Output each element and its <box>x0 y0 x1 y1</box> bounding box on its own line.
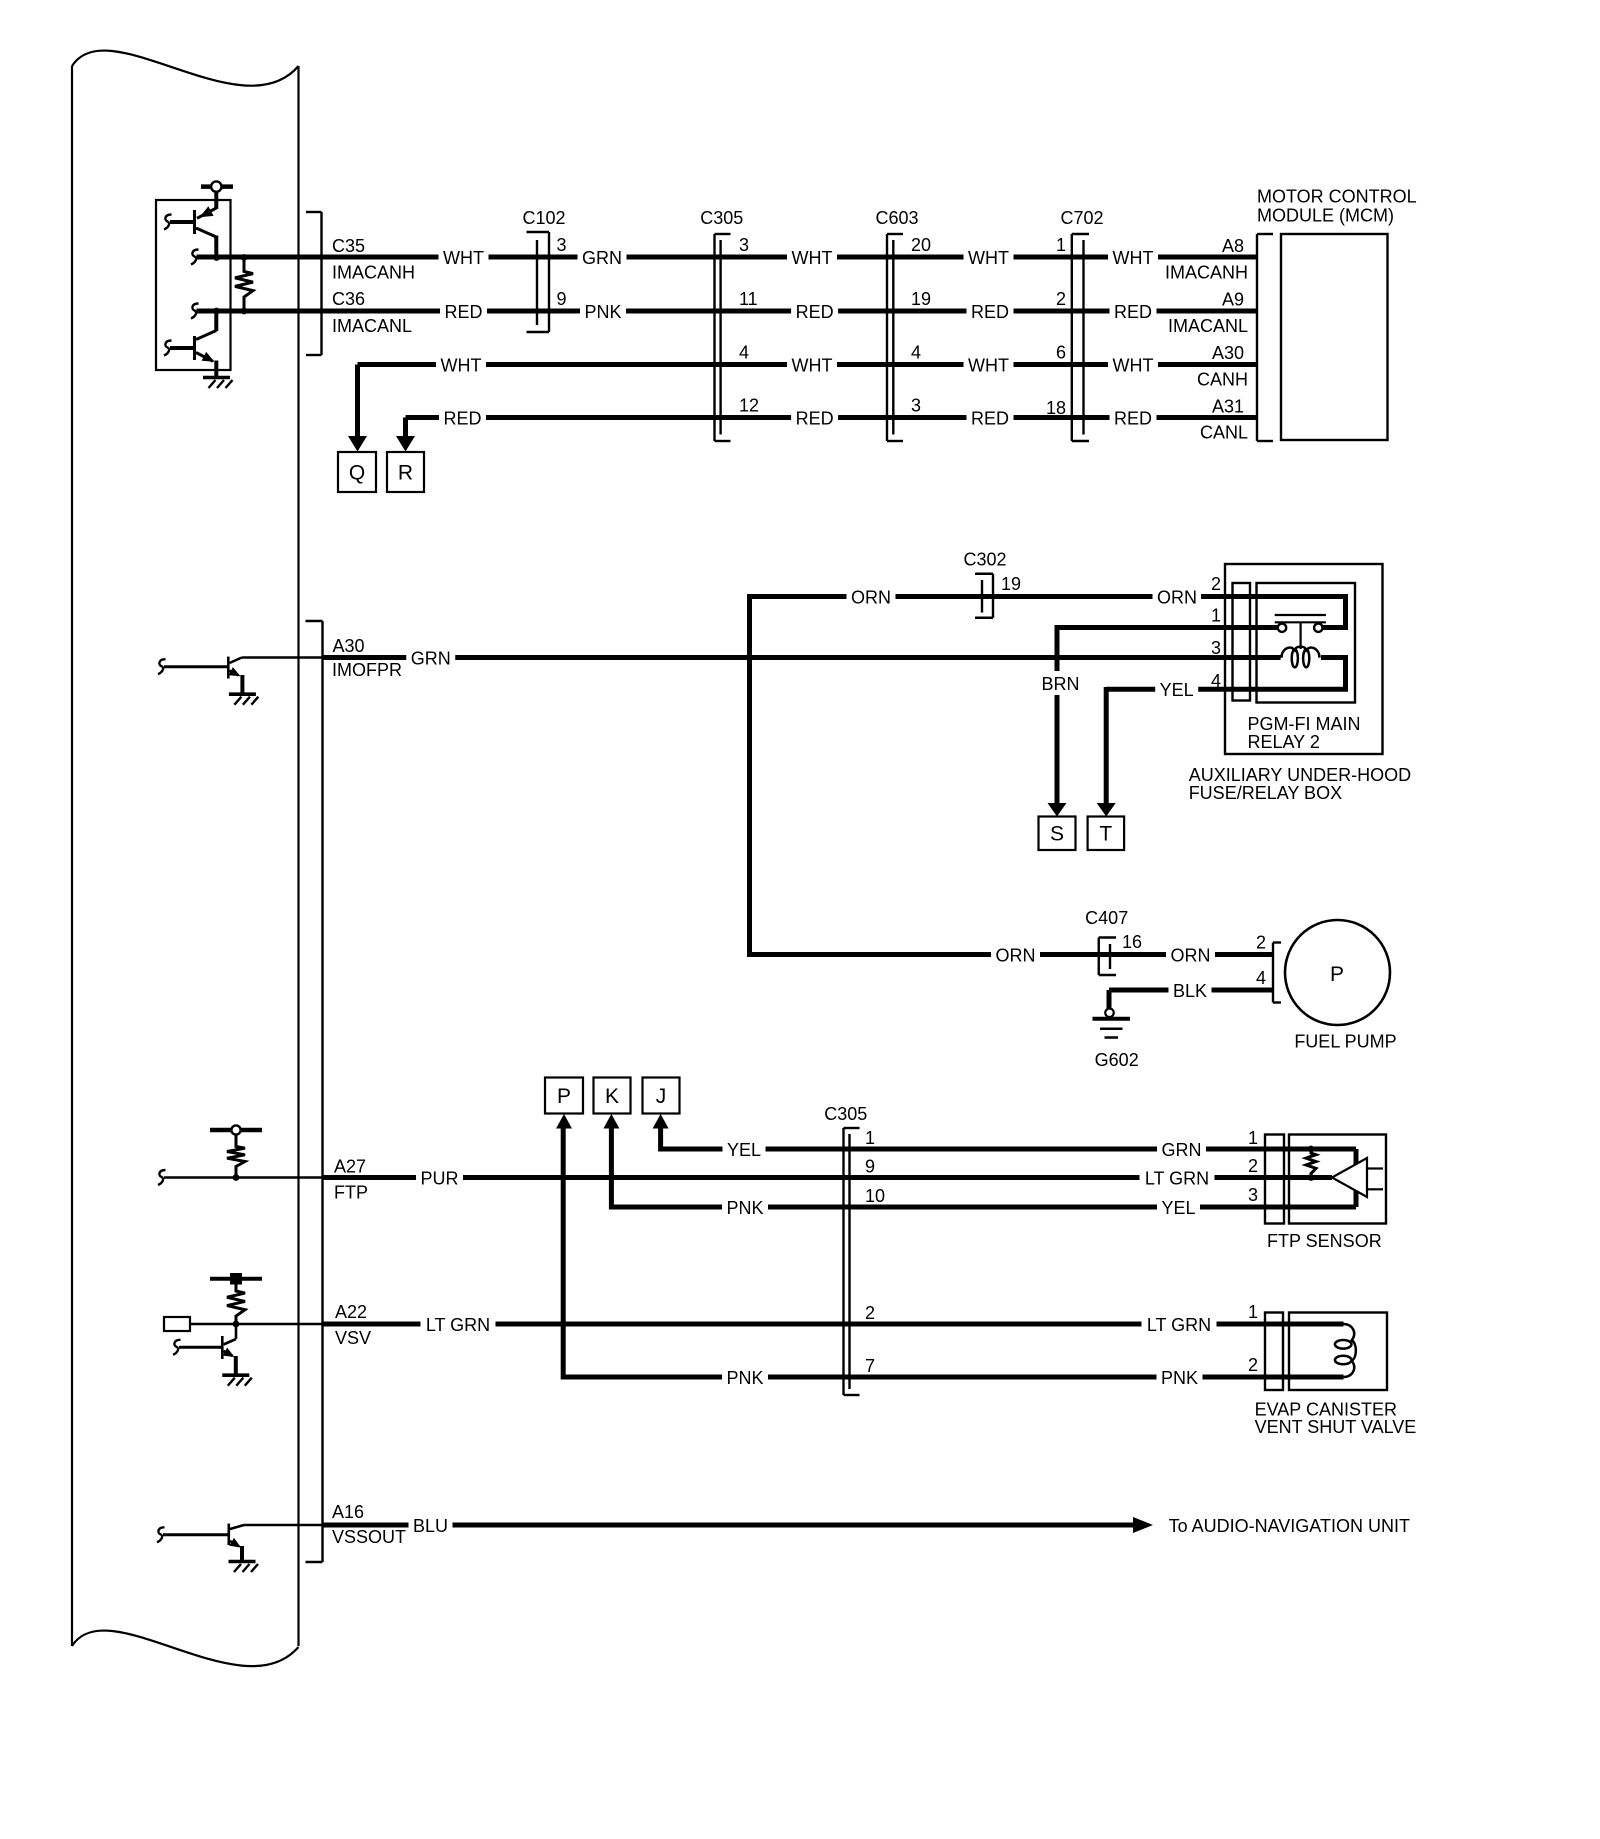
svg-text:RED: RED <box>796 302 834 322</box>
svg-text:To AUDIO-NAVIGATION UNIT: To AUDIO-NAVIGATION UNIT <box>1169 1516 1410 1536</box>
relay coil <box>1282 647 1320 668</box>
wire ORN to fuel pump pin 2 <box>750 933 1274 966</box>
svg-text:PNK: PNK <box>584 302 621 322</box>
svg-text:C35: C35 <box>332 236 365 256</box>
svg-text:RED: RED <box>971 408 1009 428</box>
wire CANH row: WHT to MCM A30 (branch to Q) <box>358 343 1258 436</box>
EVAP valve connector <box>1248 1302 1283 1390</box>
svg-text:2: 2 <box>1248 1156 1258 1176</box>
svg-text:WHT: WHT <box>968 355 1009 375</box>
svg-text:3: 3 <box>557 235 567 255</box>
svg-text:RED: RED <box>796 408 834 428</box>
svg-text:C36: C36 <box>332 289 365 309</box>
svg-text:CANH: CANH <box>1197 370 1248 390</box>
svg-text:VSV: VSV <box>335 1328 371 1348</box>
terminal rectangle on VSV line <box>164 1317 323 1331</box>
wire CANL row: RED to MCM A31 (branch to R) <box>406 397 1258 443</box>
svg-text:C305: C305 <box>700 208 743 228</box>
relay connector (pins 2/1/3/4) <box>1211 574 1250 701</box>
svg-text:FTP SENSOR: FTP SENSOR <box>1267 1231 1382 1251</box>
destination box S <box>1039 817 1076 851</box>
connector C603 <box>875 208 931 441</box>
svg-text:LT GRN: LT GRN <box>1147 1315 1211 1335</box>
svg-text:G602: G602 <box>1095 1050 1139 1070</box>
svg-text:AUXILIARY UNDER-HOOD: AUXILIARY UNDER-HOOD <box>1189 765 1411 785</box>
source box P with arrow <box>545 1078 583 1129</box>
wire YEL branch with arrow to T <box>1097 687 1116 817</box>
svg-text:WHT: WHT <box>441 355 482 375</box>
svg-text:16: 16 <box>1122 932 1142 952</box>
wire ORN vertical junction branch <box>747 594 752 957</box>
component box containing transistor pair <box>156 200 231 370</box>
wire J vertical branch (YEL feed) <box>658 1129 663 1152</box>
svg-text:RED: RED <box>444 302 482 322</box>
wire relay pin 4 internal path (YEL) <box>1106 658 1345 701</box>
ground G602 (earth) <box>1093 1009 1139 1071</box>
PGM-FI MAIN RELAY 2 (inner box) <box>1248 583 1361 752</box>
svg-text:1: 1 <box>1056 235 1066 255</box>
svg-text:A30: A30 <box>1212 343 1244 363</box>
fuel pump (motor P) <box>1285 920 1397 1052</box>
svg-text:PNK: PNK <box>726 1368 763 1388</box>
relay contact (switch) <box>1275 615 1326 649</box>
svg-text:ORN: ORN <box>1157 587 1197 607</box>
svg-text:C102: C102 <box>522 208 565 228</box>
svg-text:PNK: PNK <box>726 1198 763 1218</box>
svg-text:PUR: PUR <box>420 1168 458 1188</box>
svg-text:IMACANH: IMACANH <box>1165 263 1248 283</box>
svg-text:RED: RED <box>1114 302 1152 322</box>
svg-text:RED: RED <box>1114 408 1152 428</box>
connector bracket (MCM side, pins C35/C36) <box>306 212 322 355</box>
svg-text:11: 11 <box>739 289 758 309</box>
svg-text:RELAY 2: RELAY 2 <box>1248 732 1320 752</box>
ground (chassis) below transistor box <box>203 378 233 389</box>
transistor Q2 (NPN, lower) <box>164 311 216 377</box>
svg-text:PGM-FI MAIN: PGM-FI MAIN <box>1248 714 1361 734</box>
svg-text:YEL: YEL <box>727 1140 761 1160</box>
svg-text:1: 1 <box>1248 1302 1258 1322</box>
transistor Q4 (VSV driver, NPN) <box>173 1324 236 1375</box>
svg-text:3: 3 <box>911 396 921 416</box>
wire BRN branch with arrow to S <box>1041 625 1079 817</box>
connector C305 (lower) <box>824 1104 885 1395</box>
svg-text:C702: C702 <box>1060 208 1103 228</box>
svg-text:RED: RED <box>971 302 1009 322</box>
svg-text:3: 3 <box>1211 638 1221 658</box>
wire P vertical branch (PNK feed) <box>561 1129 566 1380</box>
svg-text:2: 2 <box>1056 289 1066 309</box>
node: junction dots on IMACANH wire <box>213 254 247 261</box>
svg-text:WHT: WHT <box>968 248 1009 268</box>
wire YEL/GRN row to FTP pin 1 <box>661 1140 1356 1165</box>
svg-text:S: S <box>1050 823 1064 846</box>
EVAP solenoid coil <box>1335 1324 1356 1377</box>
svg-text:MOTOR CONTROL: MOTOR CONTROL <box>1257 187 1417 207</box>
svg-text:K: K <box>605 1085 619 1108</box>
svg-text:2: 2 <box>865 1303 875 1323</box>
wire relay pin 2 internal path <box>1201 597 1346 628</box>
svg-text:GRN: GRN <box>411 648 451 668</box>
destination box Q with arrow <box>338 436 376 492</box>
svg-text:GRN: GRN <box>1162 1140 1202 1160</box>
wire PNK row (from P) to EVAP pin 2 <box>563 1368 1343 1388</box>
svg-text:1: 1 <box>1248 1128 1258 1148</box>
source box J with arrow <box>643 1078 680 1129</box>
wire K vertical branch (PNK feed) <box>609 1129 614 1210</box>
ground (chassis) for Q5 <box>229 1562 259 1573</box>
svg-text:FTP: FTP <box>334 1183 368 1203</box>
connector bracket at Motor Control Module <box>1257 234 1273 441</box>
svg-text:YEL: YEL <box>1160 680 1194 700</box>
svg-text:FUSE/RELAY BOX: FUSE/RELAY BOX <box>1189 783 1342 803</box>
svg-text:A31: A31 <box>1212 397 1244 417</box>
svg-text:A30: A30 <box>333 636 365 656</box>
wire A27 FTP PUR / LT GRN row to FTP pin 2 <box>323 1157 1333 1203</box>
wire FTP internal lead with junction <box>158 1170 323 1185</box>
source box K with arrow <box>594 1078 631 1129</box>
svg-text:RED: RED <box>443 408 481 428</box>
svg-text:A16: A16 <box>332 1502 364 1522</box>
wire IMACANH row: C35 WHT/GRN/WHT/WHT/WHT to MCM A8 <box>191 236 1257 283</box>
svg-text:3: 3 <box>739 235 749 255</box>
auxiliary under-hood fuse/relay box (outer) <box>1189 564 1411 803</box>
svg-text:C603: C603 <box>875 208 918 228</box>
svg-text:FUEL PUMP: FUEL PUMP <box>1294 1032 1396 1052</box>
connector C305 (upper) <box>700 208 759 441</box>
svg-text:CANL: CANL <box>1200 423 1248 443</box>
FTP sensor connector <box>1248 1128 1284 1224</box>
svg-text:12: 12 <box>739 396 759 416</box>
svg-text:19: 19 <box>911 289 931 309</box>
FTP sensor box <box>1267 1135 1386 1252</box>
svg-text:PNK: PNK <box>1161 1368 1198 1388</box>
ground (chassis) for Q3 <box>229 694 259 705</box>
svg-text:IMACANL: IMACANL <box>1168 316 1248 336</box>
wire PNK / YEL row to FTP pin 3 <box>611 1191 1356 1218</box>
wire IMACANL row: C36 RED/PNK/RED/RED/RED to MCM A9 <box>191 289 1257 336</box>
svg-text:ORN: ORN <box>996 945 1036 965</box>
svg-text:4: 4 <box>1256 968 1266 988</box>
svg-text:LT GRN: LT GRN <box>1145 1168 1209 1188</box>
ground (chassis) for Q4 <box>222 1375 252 1386</box>
svg-text:IMOFPR: IMOFPR <box>332 660 402 680</box>
EVAP canister vent shut valve box <box>1255 1313 1417 1438</box>
svg-text:J: J <box>656 1085 667 1108</box>
svg-text:2: 2 <box>1211 574 1221 594</box>
power supply node (circle on bar) <box>201 181 233 209</box>
svg-text:ORN: ORN <box>1171 945 1211 965</box>
svg-text:10: 10 <box>865 1186 885 1206</box>
svg-text:C305: C305 <box>824 1104 867 1124</box>
svg-text:19: 19 <box>1001 574 1021 594</box>
resistor pull-up on FTP line <box>227 1136 245 1178</box>
svg-text:VENT SHUT VALVE: VENT SHUT VALVE <box>1255 1417 1417 1437</box>
svg-text:IMACANH: IMACANH <box>332 263 415 283</box>
svg-text:R: R <box>398 462 413 485</box>
resistor (CAN bus termination) <box>235 258 253 312</box>
svg-text:7: 7 <box>865 1356 875 1376</box>
svg-text:1: 1 <box>1211 606 1221 626</box>
connector C407 <box>1085 908 1142 975</box>
destination box T <box>1088 817 1125 851</box>
svg-text:LT GRN: LT GRN <box>426 1315 490 1335</box>
wire harness band (torn-edge module outline) <box>72 51 299 1667</box>
svg-text:WHT: WHT <box>1113 355 1154 375</box>
svg-text:BLU: BLU <box>413 1516 448 1536</box>
transistor Q3 (IMOFPR driver, NPN) <box>158 657 323 695</box>
svg-text:4: 4 <box>911 343 921 363</box>
wire A30 IMOFPR GRN row to relay pin 3 <box>323 636 1281 680</box>
svg-text:WHT: WHT <box>792 248 833 268</box>
svg-text:1: 1 <box>865 1128 875 1148</box>
FTP wiper triangle <box>1332 1158 1383 1197</box>
svg-text:C302: C302 <box>963 550 1006 570</box>
fuel pump connector bracket <box>1273 943 1281 1003</box>
svg-text:3: 3 <box>1248 1185 1258 1205</box>
svg-text:2: 2 <box>1248 1355 1258 1375</box>
power supply node for A22 (square on bar) <box>210 1273 262 1285</box>
svg-text:MODULE (MCM): MODULE (MCM) <box>1257 206 1394 226</box>
power supply node for A27 (circle on bar) <box>210 1125 262 1134</box>
svg-text:A22: A22 <box>335 1302 367 1322</box>
connector C702 <box>1046 208 1104 441</box>
svg-text:ORN: ORN <box>851 587 891 607</box>
svg-text:BLK: BLK <box>1173 981 1207 1001</box>
svg-text:T: T <box>1099 823 1112 846</box>
transistor Q5 (VSSOUT, NPN) <box>157 1524 323 1562</box>
wire A16 VSSOUT BLU row to audio-navigation <box>323 1502 1410 1547</box>
svg-text:WHT: WHT <box>1113 248 1154 268</box>
destination box R with arrow <box>387 436 424 492</box>
svg-text:9: 9 <box>557 289 567 309</box>
wire ORN: relay pin 2 feed through C302 <box>750 587 1198 607</box>
svg-text:WHT: WHT <box>792 355 833 375</box>
transistor Q1 (PNP, upper) <box>164 206 216 257</box>
node: junction dots on IMACANL wire <box>213 308 247 315</box>
svg-text:YEL: YEL <box>1161 1198 1195 1218</box>
wire relay pin 1 (to BRN branch) <box>1057 625 1278 630</box>
connector C302 <box>963 550 1021 618</box>
connector bracket (MCM side, pins A30/A27/A22/A16) <box>306 621 323 1562</box>
wire A22 VSV LT GRN row to EVAP pin 1 <box>323 1302 1344 1348</box>
FTP potentiometer resistor <box>1306 1146 1316 1181</box>
svg-text:GRN: GRN <box>582 248 622 268</box>
connector C102 <box>522 208 566 332</box>
svg-text:Q: Q <box>349 462 365 485</box>
svg-text:9: 9 <box>865 1157 875 1177</box>
svg-text:P: P <box>557 1085 571 1108</box>
svg-text:P: P <box>1330 963 1344 986</box>
Motor Control Module (MCM) box <box>1257 187 1417 441</box>
svg-text:2: 2 <box>1256 933 1266 953</box>
svg-text:A9: A9 <box>1222 290 1244 310</box>
svg-text:6: 6 <box>1056 343 1066 363</box>
svg-text:WHT: WHT <box>443 248 484 268</box>
resistor pull-up on VSV line <box>227 1283 245 1324</box>
svg-text:20: 20 <box>911 235 931 255</box>
svg-text:A8: A8 <box>1222 236 1244 256</box>
svg-text:BRN: BRN <box>1041 674 1079 694</box>
svg-text:4: 4 <box>739 343 749 363</box>
svg-text:VSSOUT: VSSOUT <box>332 1527 406 1547</box>
svg-text:IMACANL: IMACANL <box>332 316 412 336</box>
wire BLK fuel pump pin 4 to G602 <box>1109 968 1273 1009</box>
svg-text:A27: A27 <box>334 1157 366 1177</box>
svg-text:C407: C407 <box>1085 908 1128 928</box>
